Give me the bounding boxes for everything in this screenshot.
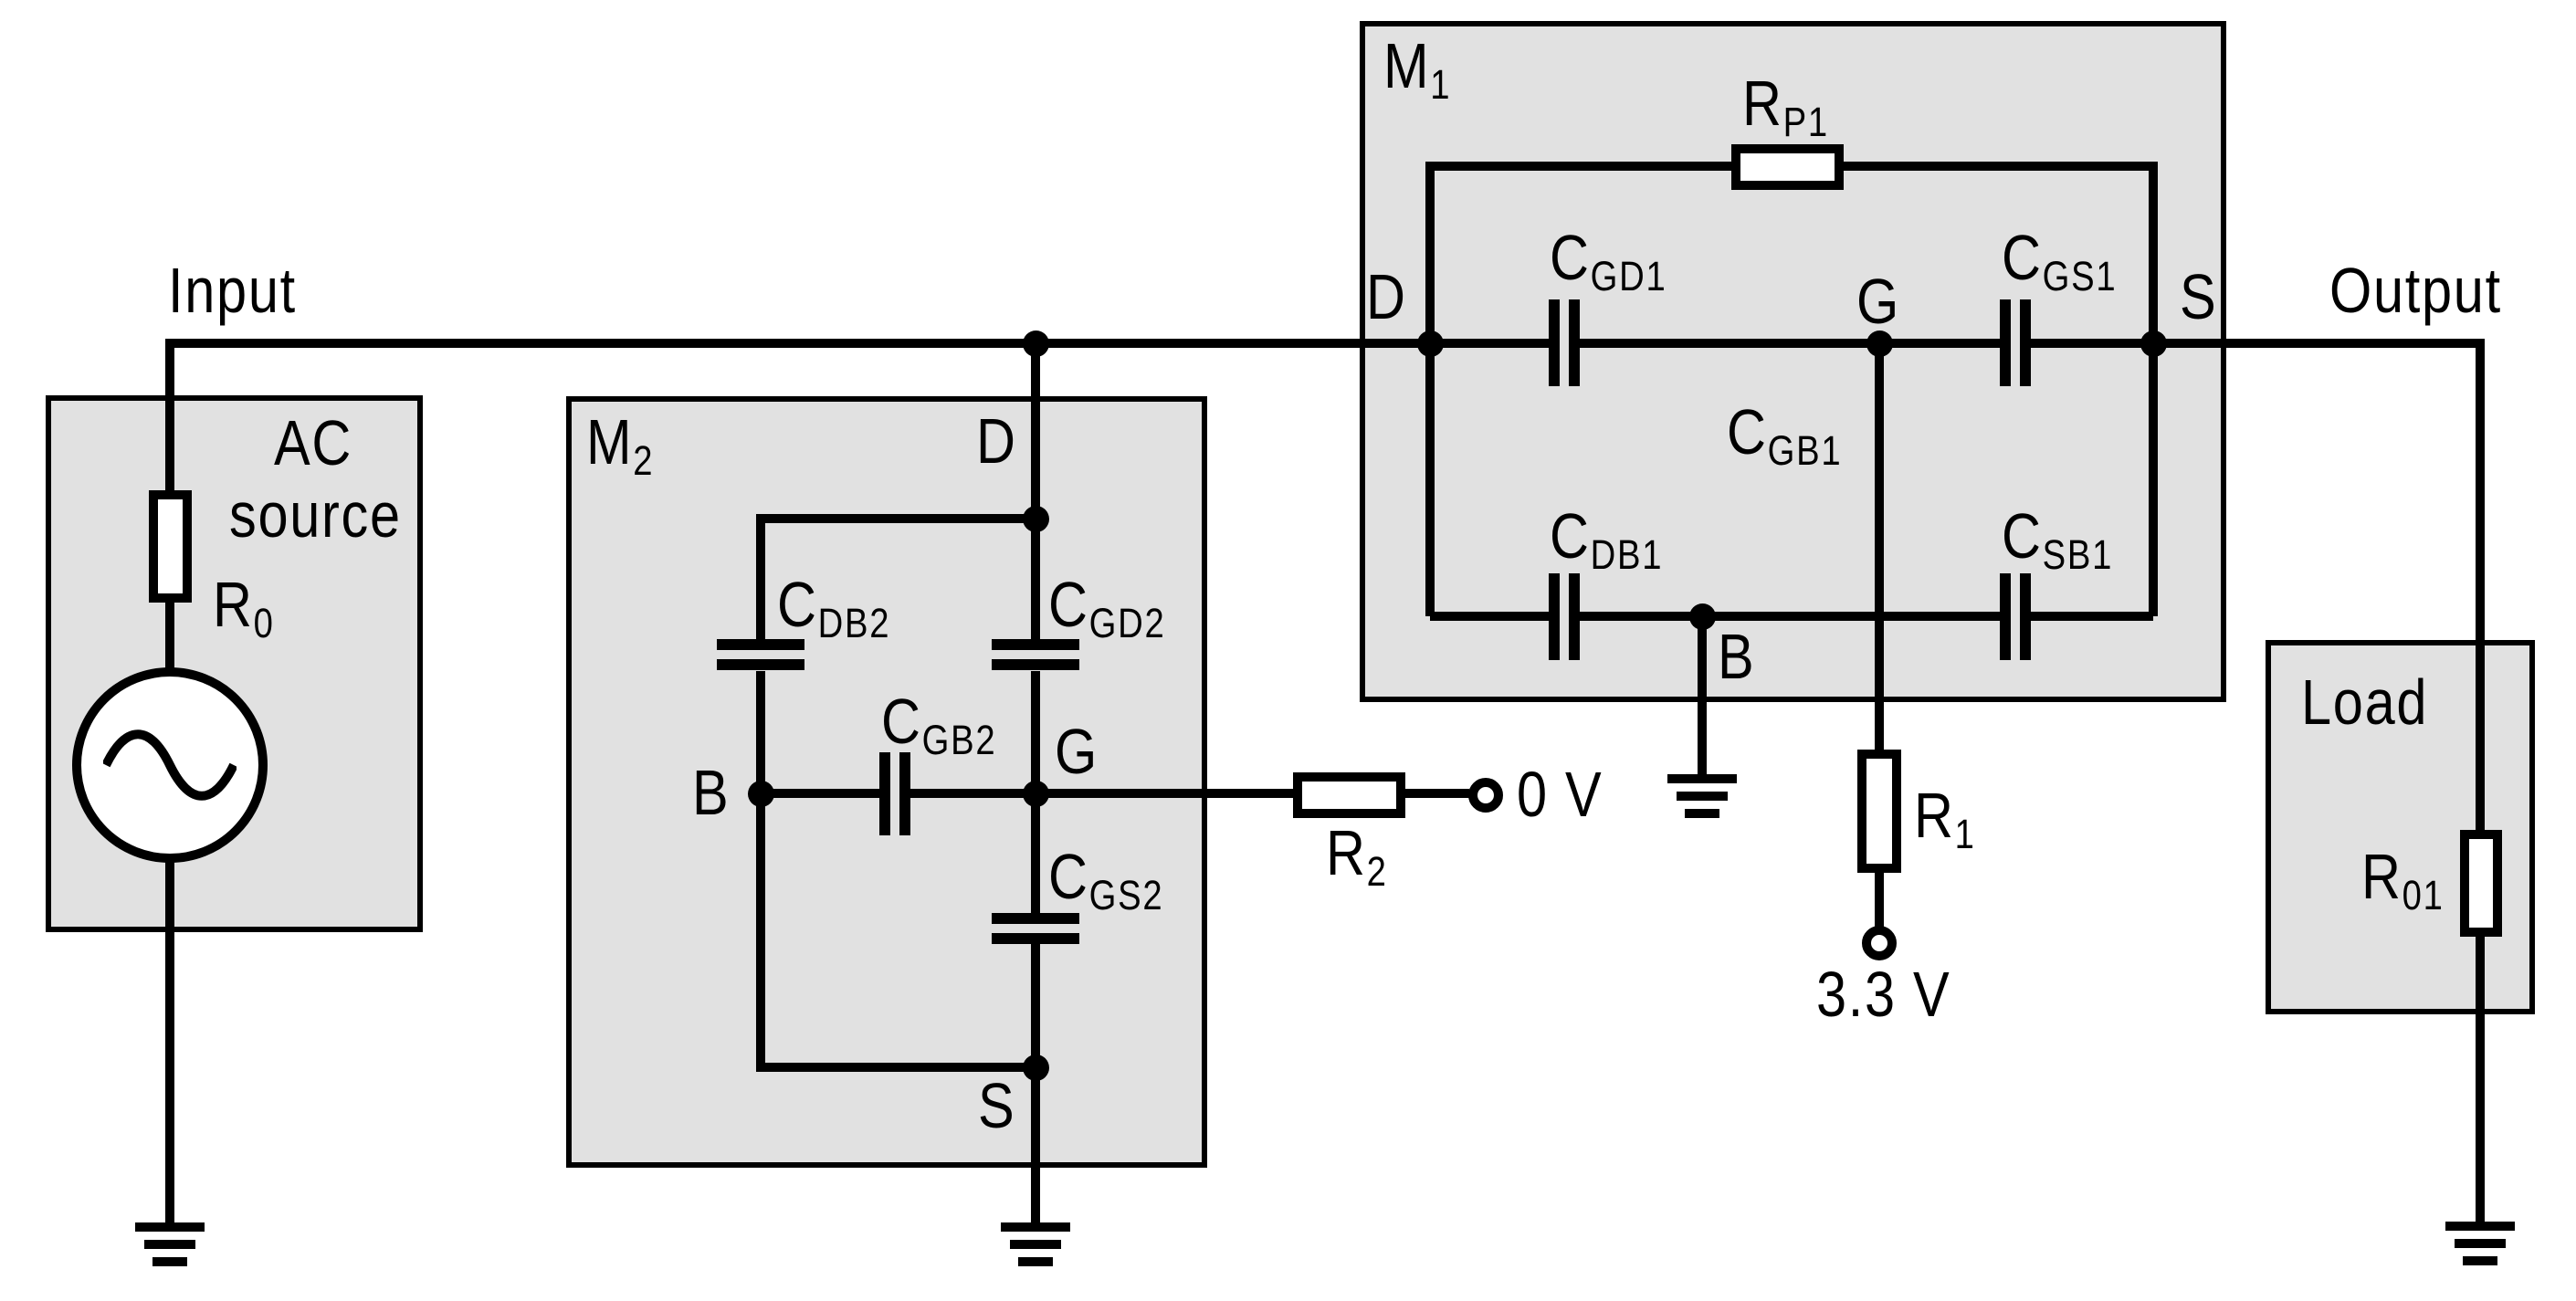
Load box: [2266, 640, 2535, 1014]
node D of M2: [1023, 506, 1049, 532]
label CGS2: [1048, 845, 1163, 908]
terminal 0V: [1468, 778, 1503, 813]
capacitor CDB2: [717, 639, 804, 650]
label RP1: [1742, 71, 1829, 135]
wire AC source to ground: [165, 859, 174, 1227]
wire CDB2 branch upper: [756, 514, 765, 640]
wire R2 to 0V terminal: [1405, 789, 1469, 798]
label CGS1: [2002, 226, 2117, 289]
wire S of M2 loop bottom: [761, 1063, 1036, 1072]
transistor model box M1: [1360, 21, 2226, 702]
label M1: [1383, 34, 1451, 98]
wire Input/Output main rail (D1 segment): [165, 339, 1549, 348]
wire Output drop to R01: [2476, 339, 2485, 830]
wire M1 bulk rail middle: [1580, 612, 2000, 621]
wire Input drop to R0: [165, 339, 174, 490]
wire B to CGB2: [761, 789, 879, 798]
capacitor CGD1: [1549, 299, 1560, 386]
label 0 V: [1517, 762, 1603, 826]
resistor R1: [1857, 750, 1901, 873]
label B of M2: [692, 761, 730, 824]
AC source sine symbol: [103, 729, 237, 802]
label D of M2: [976, 409, 1017, 473]
wire main rail D1-G1 segment: [1580, 339, 2000, 348]
label CSB1: [2002, 504, 2113, 568]
wire G of M1 to R1: [1875, 343, 1884, 750]
capacitor CGS1: [2000, 299, 2011, 386]
AC source V0 circle: [72, 667, 268, 863]
wire CGB2 to G of M2 to R2: [910, 789, 1293, 798]
wire CDB2 to B of M2 to S loop: [756, 671, 765, 1072]
ground (AC source): [135, 1222, 205, 1232]
wire R01 to ground: [2476, 937, 2485, 1226]
wire M1 left loop (D1 vertical): [1425, 162, 1435, 616]
node G of M2: [1023, 781, 1049, 807]
label D of M1: [1366, 265, 1407, 329]
resistor R2: [1293, 772, 1405, 818]
label source: [229, 483, 402, 547]
ground (M1 bulk): [1667, 774, 1737, 783]
label R0: [213, 572, 275, 636]
junction node A (input rail / M2 drain): [1023, 330, 1049, 357]
label Input: [168, 258, 297, 322]
AC source box: [46, 395, 423, 932]
label G of M1: [1856, 269, 1900, 333]
node B of M1: [1689, 603, 1716, 630]
wire M1 right loop (S1 vertical): [2149, 162, 2158, 616]
resistor RP1: [1731, 144, 1844, 190]
label G of M2: [1055, 719, 1099, 783]
capacitor CSB1: [2000, 573, 2011, 660]
wire M1 top loop right: [1844, 162, 2153, 171]
resistor R0: [149, 490, 192, 603]
label CGB1: [1727, 400, 1842, 464]
wire D of M2 to CDB2 branch: [761, 514, 1036, 523]
label Load: [2301, 670, 2428, 734]
label R2: [1326, 821, 1388, 885]
capacitor CDB1: [1549, 573, 1560, 660]
transistor model box M2: [566, 396, 1207, 1168]
label R1: [1914, 783, 1976, 847]
node D of M1: [1417, 330, 1444, 357]
label R01: [2361, 845, 2445, 908]
wire CGS2 to S of M2 to ground: [1031, 944, 1040, 1227]
label AC: [274, 411, 352, 475]
wire B of M1 to ground: [1698, 616, 1707, 779]
label B of M1: [1718, 624, 1755, 688]
label Output: [2329, 258, 2502, 322]
label CGB2: [881, 689, 996, 753]
capacitor CGD2: [992, 639, 1079, 650]
capacitor CGS2: [992, 913, 1079, 924]
label S of M2: [978, 1074, 1015, 1138]
node S of M1: [2140, 330, 2167, 357]
wire CGD2 to G of M2 to CGS2: [1031, 671, 1040, 914]
wire R1 to 3.3V terminal: [1875, 873, 1884, 927]
node S of M2: [1023, 1054, 1049, 1081]
wire R0 to AC source: [165, 603, 174, 672]
label 3.3 V: [1816, 962, 1950, 1026]
wire M1 bulk rail right: [2031, 612, 2153, 621]
wire main rail S1-Output segment: [2031, 339, 2485, 348]
label CGD2: [1048, 572, 1165, 636]
ground (M2 source): [1001, 1222, 1070, 1232]
label CGD1: [1550, 226, 1667, 289]
node B of M2: [748, 781, 774, 807]
ground (Load): [2445, 1222, 2515, 1231]
wire node A to D of M2: [1031, 343, 1040, 640]
wire M1 bulk rail left: [1430, 612, 1549, 621]
node G of M1: [1866, 330, 1893, 357]
label M2: [586, 410, 654, 474]
capacitor CGB2: [879, 752, 890, 835]
label CDB2: [777, 572, 890, 636]
label S of M1: [2180, 265, 2217, 329]
resistor R01: [2460, 830, 2502, 937]
terminal 3.3V: [1862, 926, 1897, 960]
wire M1 top loop left: [1430, 162, 1731, 171]
label CDB1: [1550, 504, 1663, 568]
